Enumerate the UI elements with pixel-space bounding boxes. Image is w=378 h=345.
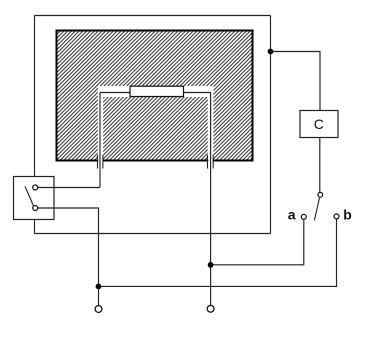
- wire: outer loop bottom edge: [35, 233, 271, 235]
- node b contact: [334, 214, 339, 219]
- feedthrough bushing left: [98, 155, 103, 169]
- filament support wire (horizontal): [100, 92, 211, 94]
- svg-text:C: C: [314, 116, 324, 132]
- switch S1 bottom contact: [33, 206, 38, 211]
- svg-text:a: a: [288, 207, 296, 223]
- node b label: [343, 207, 352, 223]
- feedthrough bushing right: [208, 155, 214, 169]
- wire: lower-left junction to terminal: [98, 286, 100, 305]
- terminal right (open circle): [207, 305, 214, 312]
- capacitor C box: [300, 111, 338, 138]
- wire: S1 bottom contact right then down to lower-left junction: [38, 208, 99, 286]
- wire: contact b down and left to lower-left junction: [99, 219, 337, 286]
- svg-text:b: b: [343, 207, 352, 223]
- switch S1 lever: [25, 186, 33, 205]
- selector switch pivot contact: [318, 192, 323, 197]
- enclosure (hatched shield box): [57, 31, 253, 163]
- selector switch lever: [314, 198, 319, 221]
- junction dot upper right: [268, 49, 274, 55]
- filament plate (white rectangle): [130, 86, 184, 96]
- wire: junction to capacitor C: [271, 52, 321, 111]
- junction dot mid (right lead): [208, 262, 214, 268]
- wire: C box down to selector pivot: [319, 138, 321, 193]
- terminal left (open circle): [95, 306, 102, 313]
- wire: outer loop left edge upper: [34, 16, 36, 177]
- wire: outer loop top edge: [35, 15, 271, 17]
- switch S1 box: [14, 177, 55, 220]
- wire: right lead down through wall to lower terminal: [210, 93, 212, 306]
- switch S1 top contact: [33, 185, 38, 190]
- wire: outer loop left edge lower (below switch box): [34, 220, 36, 234]
- wire: outer loop right edge: [270, 16, 272, 234]
- wire: left lead down through wall: [99, 93, 101, 188]
- wire: contact a down and left to mid junction: [211, 220, 304, 265]
- node a label: [288, 207, 296, 223]
- wire: S1 top contact to left lead: [38, 187, 100, 189]
- node a contact: [301, 214, 306, 219]
- junction dot lower left: [96, 284, 102, 290]
